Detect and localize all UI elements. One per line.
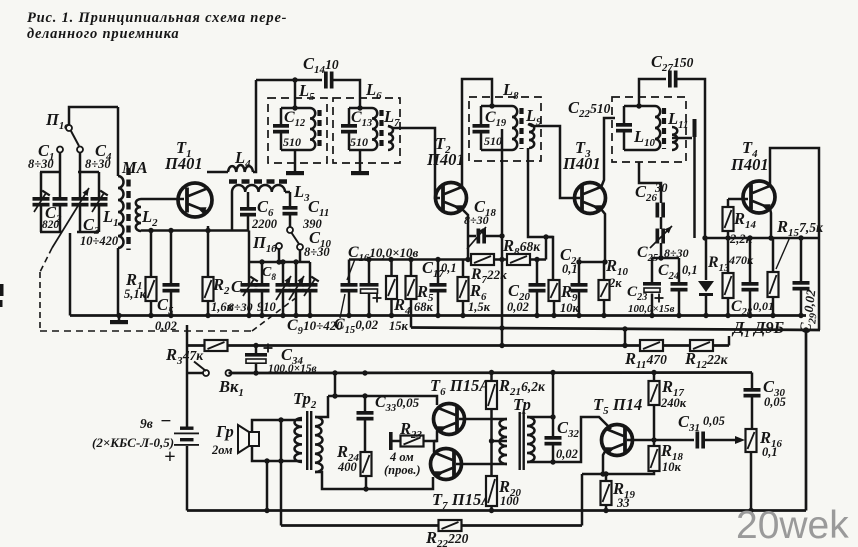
wire Tr2 right top — [315, 396, 328, 417]
wire C14 line right — [333, 80, 360, 108]
resistor R5 — [406, 260, 417, 328]
capacitor C25 trimmer — [650, 226, 672, 248]
wire T6 collector — [436, 405, 438, 408]
resistor R11 — [640, 340, 663, 351]
svg-text:4 ом: 4 ом — [389, 450, 414, 464]
battery label — [92, 411, 176, 468]
C8 label — [257, 265, 277, 314]
wire T4 emitter — [770, 209, 771, 239]
svg-text:15к: 15к — [389, 319, 409, 333]
svg-text:30: 30 — [654, 181, 668, 195]
C10 label — [304, 228, 331, 259]
wire Tr right top — [527, 414, 556, 419]
wire T4 base to R14 — [728, 199, 748, 207]
resistor R9 — [549, 280, 560, 316]
svg-text:Гр: Гр — [215, 422, 234, 441]
capacitor C7 trimmer — [241, 277, 258, 316]
capacitor C14 — [324, 72, 334, 89]
right mid rail — [652, 255, 679, 260]
R4 label — [389, 295, 411, 333]
R19 label — [612, 479, 635, 510]
L10 tank loop — [624, 103, 655, 150]
C26 label — [635, 181, 668, 204]
R8 label — [502, 236, 541, 258]
svg-text:Тр: Тр — [513, 395, 531, 414]
ground symbol left — [110, 316, 128, 325]
battery 9v — [174, 373, 199, 511]
svg-text:8÷30: 8÷30 — [304, 245, 330, 259]
R3 label — [165, 345, 204, 367]
wire emitters join — [424, 431, 437, 453]
C12 label — [283, 109, 306, 149]
R15 label — [776, 217, 824, 239]
wire L4 to C14 line — [253, 80, 256, 172]
Vk1 label — [218, 377, 244, 399]
svg-text:0,02: 0,02 — [556, 447, 578, 461]
coil L2 — [136, 199, 141, 231]
L5 label — [298, 81, 315, 103]
Tr2 core — [306, 411, 312, 470]
wire emitter row down to C7 — [248, 231, 251, 284]
transistor T3 — [575, 183, 606, 214]
coil L10 winding — [655, 106, 660, 150]
coil L8 winding — [512, 106, 517, 150]
MA label — [121, 158, 148, 177]
C25 label — [637, 244, 689, 264]
capacitor C1 (trimmer section) — [33, 172, 62, 232]
svg-text:9в: 9в — [140, 416, 153, 431]
R23 label — [384, 419, 422, 477]
capacitor C34 electrolytic — [245, 344, 273, 373]
R5 label — [414, 282, 434, 314]
svg-text:2ом: 2ом — [211, 443, 233, 457]
svg-text:+: + — [164, 446, 176, 468]
L5 core (dashed) — [317, 110, 321, 149]
capacitor C11 — [283, 192, 298, 228]
resistor R3 — [205, 340, 228, 351]
bottom supply bus — [187, 509, 806, 512]
wire C12 drop — [294, 80, 297, 108]
C30 label — [763, 377, 786, 409]
resistor R15 — [768, 238, 779, 316]
capacitor C20 — [529, 260, 546, 316]
R14 label — [729, 209, 756, 246]
wire T3 collector to C22 — [601, 118, 615, 188]
L8 shield box (dashed) — [469, 97, 541, 161]
svg-text:8÷30: 8÷30 — [85, 157, 111, 171]
wire T2 emitter down — [462, 209, 468, 260]
capacitor C32 — [545, 436, 562, 465]
svg-text:400: 400 — [337, 460, 358, 474]
T1 label — [164, 138, 203, 173]
resistor R22 — [439, 520, 462, 531]
capacitor C2 label — [42, 203, 62, 231]
switch P1a wire to top rail — [69, 107, 118, 125]
R13 label — [707, 253, 754, 274]
wire C4 drop — [79, 153, 82, 173]
C28 label — [731, 298, 774, 318]
switch P1b — [252, 227, 303, 255]
speaker Gr — [238, 425, 259, 453]
capacitor C3 — [72, 172, 100, 232]
wire Tr2 right bottom / bus5 — [315, 472, 433, 489]
switch P1a — [45, 110, 83, 153]
wire bus4 drop to collector line — [334, 373, 337, 396]
R12 label — [684, 349, 729, 371]
svg-text:−: − — [160, 411, 172, 432]
svg-text:8÷30: 8÷30 — [464, 213, 489, 227]
capacitor C22 — [616, 123, 632, 133]
supply bus 4 — [229, 370, 753, 376]
R11 label — [624, 349, 667, 371]
resistor R17 — [649, 373, 660, 441]
wire T6 base — [459, 418, 507, 421]
wire speaker to bottom bus — [264, 461, 269, 513]
coil L4 — [228, 165, 253, 172]
capacitor C10 trimmer — [303, 262, 319, 316]
svg-text:0,1: 0,1 — [562, 262, 578, 276]
svg-text:0,05: 0,05 — [764, 395, 786, 409]
R2 label — [211, 275, 234, 314]
L11 label — [667, 109, 688, 131]
resistor R13 — [723, 238, 734, 316]
C13 label — [350, 109, 372, 149]
transistor T5 — [602, 425, 633, 456]
C31 label — [678, 412, 725, 434]
svg-text:Рис. 1. Принципиальная схема п: Рис. 1. Принципиальная схема пере- — [27, 10, 287, 26]
L8 winding tap — [499, 129, 504, 346]
transformer Tr right winding — [527, 417, 535, 462]
Tr label — [513, 395, 531, 414]
title text line 2 — [27, 26, 179, 42]
resistor R2 — [203, 231, 214, 316]
C9 label — [287, 317, 343, 337]
capacitor C16 electrolytic — [360, 260, 382, 316]
resistor R12 — [690, 340, 713, 351]
T3 label — [562, 138, 601, 173]
emitter row wire — [141, 228, 249, 233]
svg-text:33: 33 — [616, 496, 630, 510]
L8 label — [502, 80, 519, 102]
resistor R1 — [146, 231, 157, 316]
L10 shield box (dashed) — [612, 97, 686, 162]
C3 value — [80, 234, 119, 248]
D1 label — [731, 318, 785, 340]
transistor T2 — [436, 183, 467, 214]
capacitor C27 — [668, 71, 678, 88]
coil L9 — [529, 124, 534, 148]
wire tuning group to ground bus — [69, 233, 72, 316]
L10 core (dashed) — [662, 108, 666, 149]
capacitor C19 — [473, 124, 490, 134]
capacitor C4 (trimmer section) — [77, 172, 108, 232]
wire L2 to T1 base — [141, 198, 184, 201]
wire C14 line left — [256, 77, 322, 82]
svg-text:100: 100 — [500, 494, 520, 508]
C33 label — [375, 394, 420, 414]
wire C27 to right column — [677, 79, 705, 238]
R18 label — [660, 441, 683, 474]
AGC bus — [411, 325, 820, 332]
C32 label — [556, 418, 579, 461]
transistor T1 — [178, 183, 212, 217]
capacitor C3 label — [83, 215, 100, 237]
feedback bus — [281, 524, 582, 527]
C20 label — [507, 281, 530, 314]
svg-text:0,01: 0,01 — [753, 299, 774, 313]
switch Vk1 — [187, 362, 232, 377]
resistor R10 — [599, 262, 610, 316]
L8 tank loop — [481, 103, 512, 150]
battery feed vertical — [186, 325, 189, 373]
antenna coil L1 — [118, 107, 124, 316]
R17 label — [660, 377, 687, 410]
wire L7 to T2 base — [388, 126, 440, 198]
L7 label — [383, 107, 400, 129]
L5 tank loop — [281, 105, 310, 150]
resistor R16 volume — [746, 429, 757, 513]
C5 label — [155, 295, 177, 333]
capacitor C26 — [656, 196, 666, 218]
resistor R4 — [386, 260, 397, 316]
resistor R24 — [361, 452, 372, 492]
R22 label — [425, 528, 469, 547]
wire L9 to T3 base — [528, 124, 580, 198]
capacitor C18 trimmer — [467, 227, 505, 249]
svg-text:8÷30: 8÷30 — [28, 157, 54, 171]
capacitor C5 — [163, 231, 180, 316]
watermark — [736, 504, 849, 547]
capacitor C33 — [357, 396, 374, 452]
L5 shield box (dashed) — [268, 98, 327, 163]
svg-text:П401: П401 — [562, 154, 601, 173]
R20 label — [498, 477, 521, 508]
wire C32 to T5 collector — [553, 417, 611, 462]
svg-text:20wek: 20wek — [736, 504, 849, 547]
coil L6 winding — [372, 108, 377, 150]
C21 label — [560, 245, 582, 276]
capacitor C2 — [40, 172, 68, 232]
C23 label — [627, 283, 675, 315]
wire T5 emitter — [603, 452, 605, 475]
title text line 1 — [27, 10, 287, 26]
wire T7 base — [456, 463, 507, 466]
capacitor C13 — [341, 124, 357, 134]
wire emitter drop to bus6 — [581, 474, 584, 526]
wire bus4 drop to C32 — [552, 373, 555, 437]
Tr2 label — [293, 389, 317, 411]
svg-text:(2×КБС-Л-0,5): (2×КБС-Л-0,5) — [92, 435, 174, 450]
wire T1 collector to L4 — [207, 171, 228, 174]
svg-text:П401: П401 — [164, 154, 203, 173]
capacitor C29 — [793, 238, 810, 318]
svg-text:0,1: 0,1 — [762, 445, 778, 459]
cap row top rail — [249, 259, 310, 264]
capacitor C8 — [255, 262, 270, 316]
svg-text:0,02: 0,02 — [507, 300, 529, 314]
ground under L5 — [286, 150, 304, 175]
C18 label — [464, 197, 496, 227]
wire P1b drop — [278, 249, 281, 262]
wire T2 collector to L8 — [462, 79, 492, 188]
C6 label — [251, 197, 278, 231]
capacitor C6 — [240, 192, 256, 231]
transformer Tr2 right winding — [315, 417, 323, 472]
L6 label — [365, 80, 382, 102]
coil L5 winding — [310, 108, 315, 150]
C16 label — [348, 244, 419, 264]
L6 tank loop — [349, 105, 372, 150]
svg-text:П401: П401 — [730, 155, 769, 174]
C17 label — [422, 258, 457, 280]
resistor R23 — [389, 432, 424, 450]
supply bus 3 — [187, 343, 729, 348]
R24 label — [336, 442, 359, 474]
wire P1b contact stub — [299, 250, 302, 262]
resistor R7 — [471, 254, 494, 265]
emitter line T5 — [582, 471, 654, 477]
C27 label — [651, 52, 694, 74]
L4 label — [234, 148, 251, 170]
Tr center tap — [492, 440, 508, 443]
right supply rail — [702, 235, 819, 240]
T6 collector line — [328, 393, 437, 405]
svg-text:Т6 П15А: Т6 П15А — [430, 376, 490, 398]
wire right edge drop — [805, 330, 808, 511]
coil L11 — [672, 127, 677, 150]
R7 label — [470, 266, 507, 286]
svg-text:240к: 240к — [660, 396, 687, 410]
T4 label — [730, 138, 769, 174]
svg-text:деланного приемника: деланного приемника — [27, 26, 179, 42]
T2 label — [426, 134, 465, 169]
R1 label — [124, 270, 147, 301]
MA core (dashed) — [126, 168, 130, 250]
transistor T6 — [434, 404, 465, 435]
T7 label — [432, 490, 492, 512]
wire C1 drop — [59, 153, 62, 173]
L10 label — [633, 127, 656, 149]
coil L7 — [388, 126, 393, 150]
C11 label — [302, 197, 329, 231]
capacitor C15 — [340, 259, 358, 318]
wire rail end up — [543, 234, 548, 259]
diode D1 — [698, 238, 714, 316]
speaker wires — [252, 417, 302, 463]
C14 label — [303, 54, 339, 76]
wire C26-C25 — [660, 217, 663, 229]
svg-text:0,05: 0,05 — [703, 414, 725, 428]
resistor R21 — [486, 373, 497, 444]
T6 label — [430, 376, 490, 398]
R6 label — [468, 281, 491, 314]
svg-text:5,1к: 5,1к — [124, 287, 147, 301]
L1 label — [102, 207, 119, 229]
capacitor C9a trimmer — [276, 262, 292, 316]
wire Tr right bottom — [527, 461, 553, 464]
transistor T7 — [431, 449, 462, 480]
transformer Tr2 left winding — [294, 418, 302, 462]
L8 core (dashed) — [519, 108, 523, 149]
tuning gang link (dashed) — [40, 188, 297, 331]
transformer Tr left winding — [500, 419, 507, 464]
capacitor C28 — [742, 238, 759, 316]
svg-text:2200: 2200 — [251, 217, 278, 231]
svg-text:МА: МА — [121, 158, 148, 177]
L6 shield box (dashed) — [333, 98, 400, 163]
ground bus — [70, 313, 806, 318]
R10 label — [605, 256, 628, 290]
wire T4 collector — [770, 148, 819, 330]
C24 label — [658, 262, 698, 282]
capacitor C9b trimmer — [289, 262, 305, 316]
svg-text:Т5 П14: Т5 П14 — [593, 395, 642, 417]
Gr label — [211, 422, 234, 457]
Tr core — [519, 412, 525, 470]
svg-text:1,5к: 1,5к — [468, 300, 491, 314]
L2 label — [141, 207, 158, 229]
wire T1 emitter — [207, 226, 210, 231]
L4/L3 core (dashed) — [229, 179, 289, 183]
capacitor C24 — [671, 258, 688, 316]
resistor R20 — [486, 441, 497, 513]
wire L11 tap — [672, 119, 697, 238]
svg-text:(пров.): (пров.) — [384, 463, 421, 477]
svg-text:0,02: 0,02 — [155, 319, 177, 333]
wire L10 bottom chain — [639, 162, 661, 203]
C29 label — [797, 288, 822, 335]
T5 label — [593, 395, 642, 417]
link bus2-bus3 b — [624, 329, 627, 346]
coil L3 — [232, 185, 290, 231]
R15 pointer — [776, 237, 790, 269]
svg-text:510: 510 — [484, 134, 502, 148]
R9 label — [560, 282, 580, 315]
wire C25 down — [660, 243, 663, 258]
wire feedback vertical — [280, 420, 283, 526]
C15 label — [334, 316, 379, 336]
capacitor C1 label — [28, 141, 54, 171]
wire L9 bottom return — [528, 148, 553, 280]
transistor T4 — [743, 181, 775, 213]
svg-text:510: 510 — [350, 135, 368, 149]
svg-text:0,1: 0,1 — [682, 263, 698, 277]
L9 label — [525, 106, 542, 128]
resistor R14 — [723, 207, 734, 238]
svg-text:910: 910 — [257, 300, 277, 314]
svg-text:68к: 68к — [414, 300, 434, 314]
capacitor C31 — [696, 432, 706, 449]
capacitor C4 label — [85, 141, 112, 171]
svg-text:8÷30: 8÷30 — [228, 300, 253, 314]
capacitor C30 — [744, 373, 761, 430]
svg-text:10к: 10к — [560, 301, 580, 315]
resistor R19 — [601, 474, 612, 513]
C19 label — [484, 109, 507, 148]
wire T5 out — [654, 439, 694, 442]
svg-text:820: 820 — [42, 219, 59, 231]
C7 label — [228, 277, 253, 314]
capacitor C21 — [571, 262, 588, 316]
wire R12 up — [728, 336, 731, 346]
R16 label — [759, 428, 782, 459]
capacitor C12 — [273, 124, 289, 134]
C22 label — [568, 98, 611, 120]
svg-text:П401: П401 — [426, 150, 465, 169]
capacitor C23 electrolytic — [643, 258, 664, 316]
L6 core (dashed) — [379, 110, 383, 149]
resistor R8 — [507, 254, 530, 265]
